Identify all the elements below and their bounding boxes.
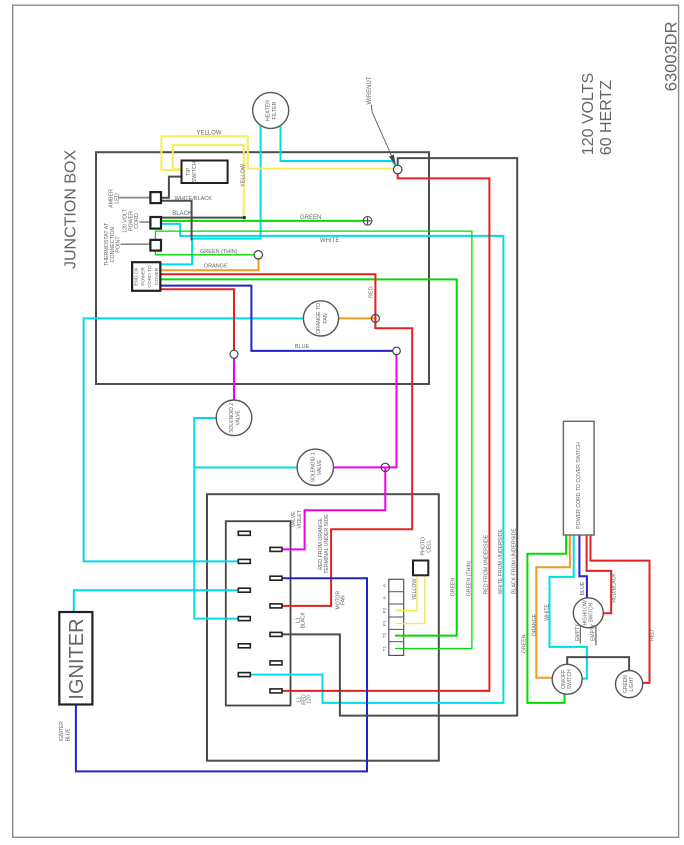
svg-text:RED FROM UNDERSIDE: RED FROM UNDERSIDE <box>484 534 490 594</box>
svg-text:BLUE: BLUE <box>580 581 586 595</box>
tip switch box <box>182 161 228 184</box>
svg-text:WHITE: WHITE <box>320 238 339 244</box>
wire green power cord box to on/off switch <box>527 535 566 703</box>
terminal slot L1 <box>238 531 250 535</box>
svg-text:YELLOW: YELLOW <box>240 163 246 187</box>
svg-text:POWER CORD TO COVER SWITCH: POWER CORD TO COVER SWITCH <box>576 442 582 529</box>
terminal slot R1 <box>270 547 282 551</box>
terminal slot L2 <box>238 559 250 563</box>
wire green thin thermostat square to terminal T1 <box>155 231 472 648</box>
svg-text:RED/BLACK: RED/BLACK <box>611 573 617 603</box>
svg-text:SOLENOID 1: SOLENOID 1 <box>310 452 316 482</box>
svg-text:SWITCH: SWITCH <box>192 161 198 182</box>
svg-text:HEATER: HEATER <box>265 100 271 121</box>
svg-text:GREEN: GREEN <box>451 577 457 596</box>
junction dot yellow/black <box>243 216 246 219</box>
terminal slot L5 <box>238 644 250 648</box>
wire orange fan circle to red junction circle <box>339 317 376 319</box>
wire dark LED square stub down <box>161 201 192 241</box>
red/orange junction circle <box>371 314 379 322</box>
terminal slot R5 <box>270 661 282 665</box>
wire blue power cord box to high/low switch top <box>579 535 587 598</box>
terminal slot R2 <box>270 576 282 580</box>
svg-text:WIRENUT: WIRENUT <box>367 76 373 104</box>
wire red end-of-power-cord box to motor fan terminal <box>160 274 412 606</box>
svg-text:FAN: FAN <box>323 313 329 323</box>
terminal slot L3 <box>238 588 250 592</box>
svg-text:GREEN (THIN): GREEN (THIN) <box>200 249 238 255</box>
solenoid 1 valve circle <box>297 449 333 485</box>
green thin junction circle <box>254 251 262 259</box>
ground screw symbol <box>363 217 372 226</box>
terminal slot L4 <box>238 617 250 621</box>
leader line thermostat connection point <box>121 243 151 245</box>
wire orange power cord box to on/off switch <box>536 535 570 678</box>
svg-text:GREEN: GREEN <box>300 215 321 221</box>
svg-text:T2: T2 <box>382 632 388 638</box>
svg-text:VALVE: VALVE <box>317 459 323 475</box>
svg-text:BLUE: BLUE <box>295 344 310 350</box>
svg-text:WHITE FROM UNDERSIDE: WHITE FROM UNDERSIDE <box>498 529 504 595</box>
wirenut junction circle <box>393 165 402 174</box>
svg-text:BLACK: BLACK <box>172 211 192 217</box>
wire red power cord box to green light <box>591 535 650 683</box>
svg-text:POINT: POINT <box>116 236 122 253</box>
solenoid 2 valve circle <box>216 400 252 436</box>
svg-text:F1: F1 <box>382 620 388 626</box>
svg-text:VALVE: VALVE <box>236 409 242 425</box>
svg-text:FILTER: FILTER <box>272 101 278 119</box>
svg-text:WHITE: WHITE <box>544 604 550 621</box>
svg-text:SWITCH: SWITCH <box>567 669 573 689</box>
wire cyan fan circle to terminal slot 2 <box>84 318 304 561</box>
wire green 120V square to ground screw <box>161 220 363 222</box>
svg-text:END OF: END OF <box>134 267 140 285</box>
wire magenta valve violet junction to terminal slot <box>282 467 386 549</box>
junction box enclosure <box>96 152 429 384</box>
terminal slot R6 <box>270 689 282 693</box>
wire yellow photocell to terminal F2 <box>396 577 418 611</box>
green light circle <box>616 671 643 698</box>
svg-text:YELLOW: YELLOW <box>197 131 222 137</box>
wire orange end-of-power-cord box to junction circle <box>160 259 258 270</box>
svg-text:GREEN (THIN): GREEN (THIN) <box>466 560 472 596</box>
wire blue igniter to terminal slot <box>76 578 367 771</box>
wire white (cyan) 120V square to terminal slot via underside <box>161 224 503 703</box>
terminal strip T1 T2 F1 F2 A A <box>389 579 404 655</box>
heater filter circle <box>253 92 289 128</box>
svg-text:CORD TO: CORD TO <box>147 265 153 288</box>
svg-text:RED FROM ORANGE: RED FROM ORANGE <box>318 518 324 570</box>
wire yellow tip switch to black junction dot <box>173 145 244 216</box>
svg-text:120 VOLTS: 120 VOLTS <box>580 73 597 155</box>
wire yellow tip switch to wirenut <box>161 136 393 170</box>
svg-text:COVER: COVER <box>154 267 160 285</box>
svg-text:LIGHT: LIGHT <box>629 677 635 692</box>
svg-text:ORANGE: ORANGE <box>532 613 538 636</box>
svg-text:JUNCTION BOX: JUNCTION BOX <box>62 150 79 269</box>
amber LED square <box>150 192 161 203</box>
wire blue end-of-power-cord box to blue junction circle <box>160 286 392 351</box>
svg-text:RED: RED <box>650 630 656 641</box>
svg-text:IGNITER: IGNITER <box>59 721 65 742</box>
wire red wirenut to terminal L1 RED <box>282 174 490 691</box>
wire magenta blue-circle down to solenoid 1 <box>334 355 397 468</box>
svg-text:120: 120 <box>307 695 313 704</box>
thermostat connection square <box>150 240 161 251</box>
wire yellow photocell to terminal F1 <box>396 577 425 624</box>
igniter box <box>59 612 92 705</box>
wire green end-of-power-cord box to terminal T2 <box>160 279 456 635</box>
svg-text:60 HERTZ: 60 HERTZ <box>598 80 615 156</box>
svg-text:IGNITER: IGNITER <box>66 618 88 699</box>
wire black 120V square to yellow junction dot <box>161 217 244 219</box>
svg-text:CELL: CELL <box>427 540 433 553</box>
svg-text:LED: LED <box>114 193 120 203</box>
orange to fan circle <box>303 301 338 336</box>
wire black terminal L1 BLACK to wirenut (black from underside) <box>282 158 517 716</box>
svg-text:63003DR: 63003DR <box>663 21 681 91</box>
svg-text:GREEN: GREEN <box>522 634 528 653</box>
wire green thin thermostat square to junction circle <box>155 251 254 255</box>
svg-text:TIP: TIP <box>186 167 192 176</box>
svg-text:BLACK: BLACK <box>300 611 306 628</box>
wire gray on/off switch to green light <box>567 657 629 671</box>
leader line 120 volt power cord <box>140 221 151 223</box>
svg-text:VIOLET: VIOLET <box>297 509 303 528</box>
photocell <box>413 561 428 576</box>
wire cyan heater-filter right lead to wirenut <box>281 122 396 166</box>
blue/magenta junction circle <box>393 347 401 355</box>
terminal block body <box>226 521 291 705</box>
power cord to cover switch box <box>563 421 594 535</box>
svg-text:ORANGE TO: ORANGE TO <box>316 303 322 334</box>
wire cyan solenoid 2 to terminal slot 4 <box>194 418 238 619</box>
svg-text:WHITE/BLACK: WHITE/BLACK <box>175 196 213 202</box>
svg-text:CORD: CORD <box>134 213 140 229</box>
120 volt power cord square <box>150 217 161 229</box>
end of power cord to cover box <box>132 262 160 291</box>
wire white/black LED square to tip switch <box>161 177 182 198</box>
svg-text:YELLOW: YELLOW <box>412 579 418 601</box>
svg-text:ORANGE: ORANGE <box>204 263 228 269</box>
svg-text:T1: T1 <box>382 645 388 651</box>
leader line amber led <box>119 197 151 199</box>
wirenut leader arrow <box>371 105 391 156</box>
terminal slot R3 <box>270 604 282 608</box>
svg-text:TERMINAL UNDER SIDE: TERMINAL UNDER SIDE <box>324 514 330 574</box>
svg-text:FAN: FAN <box>340 595 346 605</box>
solenoid valve junction circle <box>381 463 389 471</box>
svg-text:POWER: POWER <box>140 267 146 286</box>
red/magenta junction circle <box>230 350 238 358</box>
svg-text:RED: RED <box>369 286 375 298</box>
wire magenta red junction circle to solenoid 2 <box>233 358 235 400</box>
svg-text:F2: F2 <box>382 607 388 613</box>
wire red end-of-power-cord box to solenoid junction circle <box>160 289 234 350</box>
on/off switch circle <box>552 664 582 694</box>
wire cyan heater-filter left lead to end-of-power-cord box <box>160 122 260 264</box>
wire red power cord box to high/low switch <box>587 535 612 613</box>
terminal slot R4 <box>270 632 282 636</box>
wire white (cyan) power cord box to on/off switch <box>550 535 587 679</box>
high/low switch circle <box>573 598 603 628</box>
svg-text:BLACK FROM UNDERSIDE: BLACK FROM UNDERSIDE <box>511 528 517 594</box>
lower control box enclosure <box>207 494 439 761</box>
wire cyan igniter to terminal slot 3 <box>74 590 239 612</box>
svg-text:SWITCH: SWITCH <box>588 603 594 623</box>
svg-text:BLUE: BLUE <box>66 728 72 742</box>
terminal slot L6 <box>238 673 250 677</box>
wire cyan branch to solenoid 1 <box>194 467 296 469</box>
svg-text:SOLENOID 2: SOLENOID 2 <box>229 403 235 433</box>
